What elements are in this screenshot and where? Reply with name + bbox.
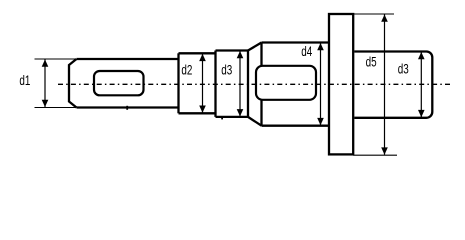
wire: flange outline (d5) (329, 14, 353, 154)
wire: d5 top extension line (353, 13, 394, 15)
wire: cone-cylinder edge (260, 43, 262, 126)
svg-text:d5: d5 (366, 54, 377, 70)
wire: cone transition d3 to d4 (248, 43, 262, 126)
svg-text:d4: d4 (301, 43, 312, 59)
node: d5 dimension line (384, 15, 386, 155)
wire: d1 bottom extension line (35, 107, 77, 109)
node: keyway slot 1 (94, 71, 144, 95)
svg-text:d2: d2 (181, 62, 192, 78)
centerline (58, 83, 450, 85)
node: junction tick on d3 bottom line (221, 116, 223, 119)
svg-text:d3: d3 (398, 60, 409, 76)
wire: d2 section outline (179, 53, 216, 113)
node: d2 dimension line (202, 54, 204, 113)
svg-text:d1: d1 (19, 72, 30, 88)
wire: d4 section outline (262, 43, 330, 126)
node: d4 dimension line (320, 43, 322, 125)
wire: d5 bottom extension line (353, 154, 397, 156)
node: junction tick on section1 bottom line (126, 106, 128, 110)
wire: d3 section outline (216, 51, 249, 117)
wire: right section outline (d3, rounded end) (354, 52, 432, 118)
node: d1 dimension line (44, 59, 46, 108)
wire: shoulder face d3/cone (247, 51, 249, 117)
node: right d3 dimension line (420, 52, 422, 117)
wire: shaft section 1 outline (chamfered left end, d1) (69, 59, 77, 108)
svg-text:d3: d3 (221, 62, 232, 78)
wire: shoulder face section1/d2 (177, 53, 179, 113)
wire: shoulder face d2/d3 (214, 51, 216, 117)
node: keyway slot 2 (256, 66, 316, 100)
node: d3 dimension line (239, 51, 241, 116)
wire: d1 top extension line (35, 58, 77, 60)
